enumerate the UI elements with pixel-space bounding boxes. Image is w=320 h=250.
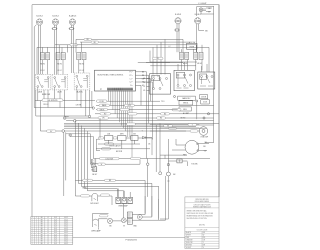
svg-text:ELECTRONIC OVEN CONTROL: ELECTRONIC OVEN CONTROL (98, 75, 124, 77)
wire tag (47, 130, 57, 132)
wire (75, 120, 96, 196)
svg-text:OVN LIGHT: OVN LIGHT (90, 203, 99, 205)
wire (168, 161, 187, 166)
svg-text:H1 H2: H1 H2 (40, 64, 45, 66)
svg-text:1: 1 (32, 232, 33, 234)
convection fan motor M2 (185, 140, 199, 154)
svg-text:2: 2 (36, 241, 37, 243)
receptacle cell 1 (116, 197, 121, 203)
wire tag (91, 41, 99, 43)
switch S2 contacts (54, 77, 66, 90)
wire (66, 120, 214, 122)
wire tag (98, 137, 104, 139)
svg-text:P7: P7 (100, 89, 102, 91)
oven lamp inner (202, 130, 205, 133)
wire (64, 127, 207, 129)
color code table (185, 231, 219, 249)
wire (113, 220, 122, 222)
relay K1 box (187, 43, 198, 49)
svg-text:SWITCHES OFF DOOR UNLOCKED: SWITCHES OFF DOOR UNLOCKED (187, 213, 214, 215)
switch S3 contacts (76, 75, 88, 90)
wire tag (124, 104, 134, 106)
wire (177, 24, 179, 52)
wire (138, 62, 183, 64)
switch S1 enclosure (35, 74, 51, 90)
wire (150, 125, 199, 131)
svg-text:10-3: 10-3 (54, 234, 57, 236)
wire (172, 139, 185, 150)
wire (140, 85, 142, 105)
thermostat contacts (152, 76, 168, 90)
wire (37, 47, 209, 72)
svg-text:1: 1 (32, 221, 33, 223)
svg-text:1: 1 (32, 243, 33, 245)
wire (136, 74, 149, 76)
wire (64, 126, 196, 128)
door lock contacts (200, 76, 213, 87)
wire (147, 77, 150, 79)
selector inner block (176, 72, 185, 78)
svg-text:40-12: 40-12 (64, 217, 68, 219)
svg-text:SURF SW: SURF SW (42, 94, 51, 96)
svg-text:40-12: 40-12 (64, 236, 68, 238)
svg-text:DOOR: DOOR (201, 97, 207, 99)
svg-text:10-3: 10-3 (54, 228, 57, 230)
wire tag (101, 194, 110, 196)
svg-text:TOD BK: TOD BK (191, 163, 198, 165)
wire (213, 6, 215, 143)
splice P9 (69, 134, 72, 137)
svg-text:H1 H2: H1 H2 (57, 64, 62, 66)
svg-text:L1 L2: L1 L2 (79, 70, 83, 72)
svg-text:LR RR: LR RR (76, 104, 82, 106)
receptacle cell 3 (128, 197, 133, 203)
wire (159, 211, 166, 220)
svg-text:BK: BK (109, 180, 111, 182)
wire (160, 154, 187, 156)
switch block SW bank B (56, 53, 65, 60)
wire tag (161, 113, 170, 115)
svg-text:L1: L1 (47, 224, 49, 226)
svg-text:2: 2 (36, 221, 37, 223)
fuse F3 (174, 29, 180, 31)
svg-text:P2 •: P2 • (130, 75, 133, 77)
wire (146, 62, 170, 64)
svg-text:L1: L1 (47, 239, 49, 241)
svg-text:10-3: 10-3 (54, 239, 57, 241)
junction (174, 96, 176, 98)
svg-text:P#05050372: P#05050372 (126, 239, 138, 241)
svg-text:40-12: 40-12 (64, 241, 68, 243)
svg-text:1: 1 (32, 228, 33, 230)
wire (36, 90, 89, 116)
svg-text:2: 2 (36, 243, 37, 245)
svg-text:1: 1 (32, 217, 33, 219)
wire (92, 159, 96, 167)
svg-text:40-12: 40-12 (64, 226, 68, 228)
svg-text:10-3: 10-3 (54, 230, 57, 232)
surface unit receptacle P4 (175, 18, 181, 24)
switch S2 enclosure (52, 74, 68, 90)
inline connector (74, 120, 77, 123)
table cell text (32, 217, 68, 245)
svg-text:BK W: BK W (82, 187, 87, 189)
svg-text:WHITE: WHITE (186, 235, 191, 237)
svg-text:40-12: 40-12 (64, 230, 68, 232)
svg-text:1: 1 (32, 236, 33, 238)
wire (205, 142, 214, 144)
wire tag (105, 143, 114, 145)
label box MDL (179, 107, 191, 111)
wire (96, 155, 210, 158)
thermal fuse F4 (177, 159, 182, 163)
svg-text:L1: L1 (47, 217, 49, 219)
wire (198, 144, 209, 151)
svg-text:L1: L1 (47, 230, 49, 232)
svg-text:L1 L2: L1 L2 (57, 70, 61, 72)
wire tag (153, 57, 164, 59)
oven lamp assembly (199, 127, 208, 136)
fuse F1 (52, 28, 58, 30)
svg-text:L1: L1 (47, 241, 49, 243)
wire (96, 144, 150, 149)
switch block SW bank E (194, 52, 203, 59)
svg-text:DLB: DLB (107, 134, 110, 136)
wire tag (70, 44, 78, 46)
wire (92, 163, 98, 165)
fuse F2 (69, 28, 75, 30)
wire (76, 39, 183, 52)
wiring chart table (31, 217, 73, 245)
svg-text:L1: L1 (47, 234, 49, 236)
svg-text:1: 1 (32, 230, 33, 232)
svg-text:L1: L1 (47, 232, 49, 234)
wire tag (83, 179, 93, 181)
svg-text:2: 2 (36, 226, 37, 228)
svg-text:2: 2 (36, 217, 37, 219)
svg-text:8-1/8-3: 8-1/8-3 (195, 14, 201, 16)
terminal strip upper (127, 212, 132, 218)
wire (66, 134, 100, 139)
wire (197, 7, 214, 17)
receptacle cell 2 (122, 197, 127, 203)
svg-text:10-3: 10-3 (54, 221, 57, 223)
svg-text:L1 L2: L1 L2 (40, 70, 44, 72)
motor symbol (137, 215, 142, 220)
wire (64, 124, 214, 126)
svg-text:2B: 2B (143, 82, 145, 84)
svg-text:BAKE RLY: BAKE RLY (182, 97, 191, 100)
svg-text:2: 2 (36, 239, 37, 241)
receptacle contact (129, 198, 132, 201)
wire (167, 139, 169, 172)
notes box (185, 197, 219, 249)
connector pin (146, 163, 149, 166)
svg-text:BROIL: BROIL (100, 109, 105, 111)
wire tag (164, 125, 173, 127)
selector contacts (177, 74, 192, 88)
receptacle contact (123, 198, 126, 201)
svg-text:YELLOW: YELLOW (186, 242, 193, 244)
wire (147, 81, 150, 83)
svg-text:L1: L1 (47, 221, 49, 223)
svg-text:10-3: 10-3 (54, 236, 57, 238)
label box DOOR (199, 95, 207, 99)
svg-text:Y: Y (192, 124, 193, 126)
svg-text:L1: L1 (47, 226, 49, 228)
svg-text:2: 2 (36, 234, 37, 236)
svg-text:2: 2 (36, 232, 37, 234)
diode D1 (142, 136, 152, 139)
svg-text:10-3: 10-3 (54, 217, 57, 219)
wire (136, 78, 151, 80)
wire (124, 204, 159, 221)
wire tag (172, 109, 181, 111)
wire tag (128, 113, 137, 115)
wire (79, 60, 84, 73)
svg-text:CB: CB (148, 144, 150, 146)
label box LOCK (201, 100, 209, 104)
splice T (121, 218, 126, 223)
door lock motor M1 (93, 167, 97, 172)
wire (116, 203, 133, 205)
wire (148, 75, 150, 123)
connector pin (167, 163, 169, 165)
wire (65, 116, 69, 118)
svg-text:40-12: 40-12 (64, 234, 68, 236)
wire (43, 39, 82, 52)
wire tag (113, 137, 117, 139)
svg-text:10-3: 10-3 (54, 243, 57, 245)
svg-text:LOCK SW: LOCK SW (106, 158, 114, 160)
surface unit receptacle P5 (195, 18, 201, 24)
svg-text:MDL: MDL (183, 109, 187, 111)
wire (39, 25, 41, 74)
svg-text:2: 2 (36, 219, 37, 221)
terminal strip lower (127, 218, 132, 224)
wire (97, 227, 99, 229)
wire tag (100, 215, 109, 217)
wire tag (127, 123, 136, 125)
wire (39, 101, 41, 131)
switch block SW bank D (180, 52, 189, 59)
junction connector (88, 115, 90, 117)
oven thermostat S4 (150, 74, 171, 94)
connector pin (166, 172, 170, 176)
wire (197, 24, 204, 52)
switch S3 enclosure (74, 73, 90, 90)
surface unit receptacle P1 (36, 19, 42, 25)
wire (136, 84, 142, 86)
EOC terminal strip (108, 88, 134, 91)
svg-text:1: 1 (32, 226, 33, 228)
wire (147, 85, 150, 87)
svg-text:L1: L1 (47, 236, 49, 238)
svg-text:BK: BK (94, 42, 96, 44)
svg-text:GY-2: GY-2 (128, 105, 132, 107)
wire (160, 176, 168, 219)
splice (63, 117, 66, 120)
svg-text:2: 2 (36, 230, 37, 232)
wire (34, 107, 93, 109)
svg-text:SHOWN IN IDLE POSITION: SHOWN IN IDLE POSITION (187, 218, 208, 220)
svg-text:L1: L1 (47, 243, 49, 245)
svg-text:10-3: 10-3 (54, 219, 57, 221)
svg-text:VIOLET: VIOLET (186, 247, 192, 249)
svg-text:COLOR CODE: COLOR CODE (197, 230, 208, 232)
wire (64, 132, 66, 196)
svg-text:1: 1 (32, 219, 33, 221)
wire tag (131, 157, 141, 159)
switch S1 contacts (37, 77, 49, 90)
wire (55, 25, 57, 74)
wire tag (99, 104, 110, 107)
wire (167, 180, 169, 182)
wire (93, 158, 96, 160)
wire tag (100, 157, 120, 160)
wire (146, 72, 148, 159)
wire (80, 42, 190, 43)
switch block SW bank A (40, 53, 49, 60)
wire tag (42, 99, 63, 102)
selector switch S5 (174, 70, 194, 90)
svg-text:8-1A 8-3: 8-1A 8-3 (69, 14, 76, 17)
wire (203, 10, 211, 13)
motor terminals (197, 143, 199, 145)
wire (35, 100, 95, 102)
svg-text:1: 1 (32, 234, 33, 236)
svg-text:8-1/8-3: 8-1/8-3 (175, 14, 181, 16)
junction connector (92, 107, 94, 109)
svg-text:40-12: 40-12 (64, 243, 68, 245)
wire (109, 91, 132, 159)
oven light L3 (93, 219, 99, 227)
wire (100, 118, 152, 155)
wire (145, 176, 165, 219)
svg-text:H1 H2: H1 H2 (197, 63, 202, 65)
wire (34, 25, 36, 108)
svg-text:1: 1 (32, 239, 33, 241)
svg-text:L1: L1 (47, 228, 49, 230)
oven light L2 (92, 193, 98, 201)
wire (109, 140, 135, 149)
svg-text:BROIL: BROIL (183, 103, 188, 105)
surface unit receptacle P3 (69, 19, 75, 25)
wire (156, 123, 160, 172)
wire (101, 160, 141, 164)
wire tag (100, 113, 111, 116)
wire (150, 65, 196, 67)
wire (142, 216, 152, 218)
notes text (187, 198, 214, 232)
wire (36, 47, 38, 74)
label box BROIL relay (179, 101, 193, 105)
wire (196, 102, 198, 119)
svg-text:10-3: 10-3 (54, 232, 57, 234)
wire (218, 5, 220, 197)
thermostat inner block (152, 76, 160, 81)
wire tag (84, 38, 92, 40)
wire (55, 45, 196, 53)
junction (203, 117, 205, 119)
wire tag (102, 148, 111, 150)
svg-text:8-1/8-3: 8-1/8-3 (52, 15, 58, 17)
svg-text:H1 H2: H1 H2 (183, 63, 188, 65)
svg-text:40-12: 40-12 (64, 221, 68, 223)
svg-text:40-12: 40-12 (64, 219, 68, 221)
junction (207, 113, 209, 115)
splice S (107, 218, 112, 223)
svg-text:L2: L2 (169, 46, 171, 48)
wire (118, 189, 130, 198)
door lock switch S6 (198, 72, 215, 89)
svg-text:2: 2 (36, 224, 37, 226)
wire tag (81, 195, 90, 197)
wire (203, 8, 212, 9)
svg-text:10-3: 10-3 (54, 241, 57, 243)
wire (147, 89, 150, 91)
relay K3 (118, 136, 126, 141)
wire (64, 122, 219, 124)
drawing border frame (decorative) (32, 5, 219, 238)
wire tag (190, 130, 198, 132)
switch block SW bank C (77, 53, 86, 60)
svg-text:L2 •: L2 • (130, 82, 133, 84)
indicator lamp inner (200, 9, 202, 11)
svg-text:BROWN: BROWN (186, 244, 193, 246)
wire (136, 81, 153, 83)
wire (152, 82, 154, 140)
wire (66, 101, 219, 118)
wire (75, 151, 158, 221)
svg-text:2: 2 (36, 228, 37, 230)
wire tag (98, 117, 109, 120)
wire tag (188, 124, 197, 126)
svg-text:OVEN: OVEN (189, 46, 195, 48)
wire (182, 60, 188, 71)
wire (40, 130, 62, 132)
wire (182, 45, 203, 53)
svg-text:2: 2 (36, 236, 37, 238)
wire (93, 213, 109, 221)
wire tag (120, 108, 129, 110)
wire (43, 60, 48, 75)
svg-text:Y: Y (142, 131, 143, 133)
svg-text:8-1/8-3: 8-1/8-3 (36, 15, 42, 17)
svg-text:DOOR LATCH: DOOR LATCH (110, 144, 122, 147)
svg-text:10-3: 10-3 (54, 224, 57, 226)
wire tag (96, 100, 107, 103)
wire (72, 25, 74, 73)
label box BAKE relay (178, 96, 196, 100)
wire (136, 71, 147, 73)
svg-text:(NOTE): (NOTE) (199, 224, 205, 226)
wire (75, 196, 112, 205)
relay K4 (131, 136, 138, 141)
junction (196, 100, 198, 102)
wire tag (169, 127, 177, 129)
svg-text:H1 H2: H1 H2 (79, 64, 84, 66)
wire (201, 12, 214, 14)
receptacle contact (117, 198, 120, 201)
wire tag (98, 163, 106, 165)
svg-text:MOTOR: MOTOR (116, 151, 123, 153)
plug contact (62, 130, 65, 133)
wire tag (97, 108, 108, 111)
electronic oven control U1 (95, 70, 136, 91)
wire (147, 159, 149, 197)
wire (64, 130, 186, 132)
